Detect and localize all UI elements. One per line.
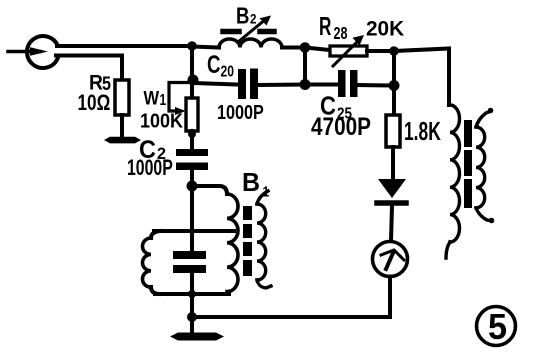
svg-text:B: B (242, 169, 260, 198)
node E junction dot (187, 312, 197, 322)
B1 core (243, 206, 252, 220)
generator/probe symbol (input) (27, 36, 57, 68)
wire top main (circle to node A) (57, 44, 192, 48)
svg-text:1000P: 1000P (127, 157, 173, 181)
wire meter to bottom rail (192, 277, 390, 318)
tank variable capacitor plates (173, 251, 206, 259)
potentiometer W1 (186, 98, 198, 131)
wire R5 to ground (120, 115, 124, 137)
svg-text:20: 20 (221, 63, 235, 81)
svg-text:10Ω: 10Ω (78, 91, 111, 116)
diode D1 (378, 179, 406, 198)
node F junction dot (187, 181, 198, 192)
B2 core dashes (223, 29, 239, 35)
wire lower from circle to R5 (56, 56, 122, 81)
R28 wiper arrow (333, 40, 359, 66)
svg-text:20K: 20K (366, 17, 404, 40)
svg-text:28: 28 (334, 24, 348, 44)
capacitor C25 (parallel with R28) (305, 83, 338, 87)
B2 adjust arrow (238, 19, 266, 42)
transformer B1 primary winding (227, 194, 238, 292)
T2 primary bottom tail (446, 242, 450, 258)
wire node D vertical (392, 51, 396, 115)
wire 1.8K to diode (391, 147, 395, 179)
svg-text:1: 1 (160, 90, 167, 108)
svg-text:1000P: 1000P (217, 101, 264, 123)
B1 secondary winding (257, 204, 266, 280)
wire diode to meter (391, 206, 392, 241)
capacitor C2 (176, 149, 208, 156)
node B junction dot (188, 75, 199, 86)
T2 secondary top stub (476, 111, 491, 127)
node D dots (389, 46, 399, 56)
svg-text:2: 2 (250, 10, 256, 26)
meter needle (386, 253, 393, 269)
T2 secondary winding (476, 127, 485, 208)
B1 secondary bottom stub (257, 280, 271, 288)
wire node F to B1 primary (192, 186, 227, 194)
capacitor C20 (parallel with B2) (193, 83, 238, 85)
figure number 5 circled (477, 307, 516, 346)
wire W1 to C2 (190, 131, 194, 150)
tank bottom rail (155, 292, 229, 296)
svg-text:R: R (319, 11, 331, 41)
meter M1 (373, 242, 408, 277)
wire node A down to node B (190, 46, 194, 98)
tank top rail (154, 229, 234, 233)
node A junction dot (187, 41, 197, 51)
svg-text:5: 5 (488, 307, 507, 347)
svg-text:C: C (207, 50, 221, 78)
node C dots (300, 42, 311, 53)
wire C2 to node F (190, 170, 194, 186)
svg-text:100K: 100K (140, 111, 183, 133)
resistor 1.8K (386, 115, 400, 147)
W1 wiper (169, 83, 192, 112)
svg-text:1.8K: 1.8K (404, 117, 441, 146)
resistor R28 (variable) (305, 48, 330, 51)
T2 secondary bottom stub (476, 208, 492, 221)
ground (below R5) (104, 137, 141, 144)
svg-text:B: B (236, 4, 249, 30)
B1 secondary top stub (257, 191, 268, 204)
transformer T2 primary winding (450, 105, 460, 242)
input arrow (8, 50, 40, 54)
tank left coil (151, 231, 160, 238)
T2 core (464, 120, 472, 147)
wire top right corner down to transformer (394, 49, 449, 106)
wire node C up (303, 48, 307, 85)
svg-text:W: W (144, 87, 160, 108)
resistor R5 (115, 80, 129, 115)
wire vertical through tank (190, 186, 194, 251)
inductor B2 (variable, in series on top wire) (192, 47, 219, 48)
ground (bottom) (190, 317, 194, 333)
svg-text:4700P: 4700P (311, 112, 371, 140)
